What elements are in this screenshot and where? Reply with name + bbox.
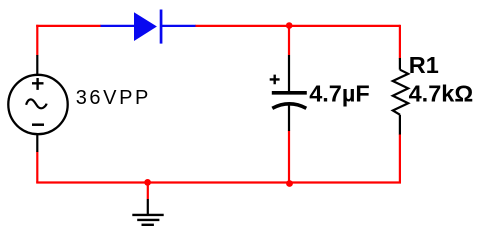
triangle [134, 12, 157, 41]
wire right vertical red (top corner to resistor) [399, 25, 401, 59]
plus sign [270, 75, 280, 85]
wire left vertical red (top corner to source) [36, 25, 38, 56]
bottom plate (arc) [272, 104, 306, 108]
node junction dot (diode/cap top) [286, 22, 293, 29]
bar 1 [132, 214, 163, 216]
svg-text:36VPP: 36VPP [76, 87, 151, 109]
top lead black [399, 58, 401, 70]
red stub [147, 183, 149, 200]
diode D1 (blue) [101, 10, 196, 44]
wire right vertical red (resistor to bottom corner) [399, 134, 401, 184]
zigzag [393, 70, 408, 115]
top lead black [36, 55, 38, 75]
cathode bar [160, 10, 163, 44]
bottom lead black [288, 106, 290, 132]
bottom lead black [399, 115, 401, 135]
svg-text:4.7µF: 4.7µF [309, 81, 370, 107]
black vertical [147, 199, 149, 215]
cathode lead [162, 25, 196, 27]
node junction dot (ground) [144, 179, 151, 186]
wire bottom red [36, 181, 401, 183]
wire capacitor branch bottom red [288, 131, 290, 183]
top lead black [288, 55, 290, 92]
top plate [272, 91, 307, 95]
capacitor C1 (polarized) [270, 55, 370, 131]
ground symbol [132, 183, 163, 225]
bar 2 [137, 219, 159, 221]
AC source V1 [8, 55, 151, 152]
bottom lead black [36, 135, 38, 153]
sine wave [26, 99, 46, 108]
wire top-right red segment (diode cathode to resistor) [195, 25, 400, 27]
plus sign [32, 78, 44, 90]
node junction dot (cap bottom) [286, 180, 293, 187]
resistor R1 [393, 52, 473, 135]
wire capacitor branch top red [288, 25, 290, 55]
minus sign [32, 123, 44, 126]
svg-text:R1: R1 [409, 52, 439, 78]
bar 3 [142, 224, 154, 226]
wire left vertical red (source to bottom corner) [36, 152, 38, 183]
svg-text:4.7kΩ: 4.7kΩ [409, 80, 474, 106]
wire top-left red segment (source to diode anode) [37, 26, 101, 27]
circle [8, 75, 67, 134]
anode lead [101, 25, 135, 27]
